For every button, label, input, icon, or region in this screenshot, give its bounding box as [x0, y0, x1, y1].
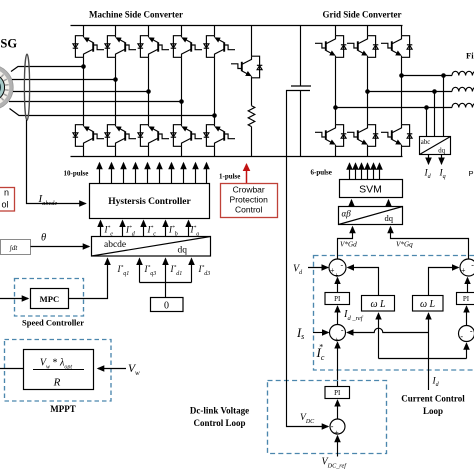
svg-text:0: 0	[164, 301, 169, 312]
svg-text:PI: PI	[334, 389, 341, 397]
wire alpha arm to SVM	[351, 200, 353, 206]
box excitation control (clipped)	[0, 188, 15, 212]
wire Vdc_ref input	[337, 436, 339, 457]
wire capacitor bottom	[300, 91, 302, 157]
box MPC speed controller dashed	[15, 279, 84, 317]
node tap b junction	[432, 89, 437, 94]
wire zero distribution	[140, 282, 192, 284]
wire omega-L d output to Vd summer	[348, 268, 379, 296]
node phase2-leg2	[113, 77, 118, 82]
wire machine leg5 vertical	[214, 26, 216, 157]
wire Vd input	[308, 267, 328, 269]
wire Iq_ref to PI q	[466, 306, 468, 325]
inductor filter L1	[452, 71, 474, 75]
wire Vw input	[98, 368, 126, 370]
svg-text:1-pulse: 1-pulse	[219, 172, 240, 180]
wire Id input vertical	[428, 313, 430, 390]
node phase5-leg5	[212, 113, 217, 118]
svg-text:Control: Control	[235, 204, 263, 214]
transistor IGBT machine lower leg2	[105, 125, 136, 147]
summer Iq junction	[459, 326, 474, 342]
box DC-link Voltage Control Loop dashed	[268, 381, 387, 454]
svg-text:ISG: ISG	[0, 37, 17, 51]
wire Vdc measurement from DC-link capacitor	[287, 91, 329, 427]
resistor crowbar R	[248, 106, 255, 127]
wire tap Ia to abc-dq	[443, 76, 445, 137]
wire tap Ib to abc-dq	[434, 92, 436, 137]
wire PI d to summer	[337, 278, 339, 293]
svg-text:αβ: αβ	[342, 208, 352, 218]
wire crowbar gate red arrow	[246, 165, 248, 184]
block Hysteresis Controller	[90, 184, 210, 219]
block abcde-dq transform	[92, 237, 211, 257]
svg-text:abc: abc	[421, 139, 430, 146]
svg-text:+: +	[334, 335, 339, 344]
svg-text:dq: dq	[178, 246, 188, 256]
block omega-L d-axis	[362, 296, 395, 312]
wire grid phase a output	[336, 107, 453, 109]
machine stator ellipse	[24, 54, 29, 120]
wire crowbar top	[251, 26, 253, 57]
svg-text:MPC: MPC	[40, 294, 60, 304]
svg-text:PI: PI	[334, 295, 341, 303]
wire current reference arrows into hysteresis	[101, 221, 189, 237]
wire Iq3* zero input	[139, 259, 141, 283]
wire crowbar bottom	[251, 127, 253, 157]
box integrator dt	[1, 240, 31, 255]
svg-text:Filter: Filter	[466, 51, 474, 61]
wire V*Gq into transform	[391, 227, 469, 259]
svg-text:n: n	[4, 188, 9, 198]
wire machine leg4 vertical	[181, 26, 183, 157]
wire machine phase 1	[11, 67, 84, 72]
block PI d-axis	[325, 293, 350, 305]
svg-text:V*Gq: V*Gq	[396, 241, 413, 249]
svg-text:-: -	[341, 261, 344, 270]
inductor filter L2	[452, 87, 474, 91]
node grid phase c junction	[333, 105, 338, 110]
wire machine leg1 vertical	[83, 26, 85, 157]
wire tap Ic to abc-dq	[426, 108, 428, 137]
wire cross feed horizontal	[379, 358, 467, 360]
transistor IGBT grid lower leg2	[347, 125, 378, 147]
svg-text:Crowbar: Crowbar	[233, 185, 265, 195]
transistor IGBT grid upper leg1	[315, 36, 346, 58]
svg-text:-: -	[460, 332, 463, 341]
wire Id_ref to PI d	[337, 306, 339, 324]
summer Is junction	[330, 325, 346, 341]
wire Id feedback with hop into Is summer	[347, 328, 428, 332]
transistor IGBT machine lower leg5	[204, 125, 235, 147]
transistor IGBT machine lower leg1	[73, 125, 104, 147]
machine ISG generator	[0, 65, 13, 110]
transistor IGBT grid upper leg2	[347, 36, 378, 58]
wire beta arm to SVM	[388, 200, 390, 206]
inductor filter L3	[452, 103, 474, 107]
svg-text:6-pulse: 6-pulse	[311, 169, 332, 177]
summer Vdc junction	[330, 419, 345, 434]
node grid phase b junction	[365, 89, 370, 94]
wire Id1* zero input	[165, 259, 167, 298]
svg-text:R: R	[53, 377, 61, 389]
block alphabeta-dq transform	[339, 207, 403, 225]
svg-text:dq: dq	[438, 147, 445, 154]
node tap a junction	[441, 73, 446, 78]
wire Ic* from DC-link loop	[337, 342, 339, 386]
svg-text:θ: θ	[41, 233, 46, 244]
box Crowbar Protection Control	[221, 184, 278, 218]
svg-text:Current Control: Current Control	[401, 393, 465, 403]
node tap c junction	[424, 105, 429, 110]
svg-text:Protection: Protection	[230, 195, 269, 205]
svg-text:Hystersis Controller: Hystersis Controller	[108, 197, 191, 207]
wire Id measurement arrow	[428, 155, 430, 164]
wire grid leg3 vertical	[401, 26, 403, 157]
block abc-dq measurement transform	[420, 137, 451, 155]
svg-text:abcde: abcde	[104, 240, 126, 250]
svg-text:-: -	[341, 325, 344, 334]
wire Iq measurement arrow	[441, 155, 443, 164]
svg-text:SVM: SVM	[359, 183, 382, 195]
transistor IGBT grid lower leg3	[381, 125, 412, 147]
transistor IGBT machine lower leg4	[171, 125, 202, 147]
svg-text:ω L: ω L	[370, 299, 386, 310]
summer Vd junction	[329, 259, 346, 276]
transistor IGBT machine upper leg5	[204, 36, 235, 58]
capacitor DC-link top wire	[300, 26, 302, 87]
block PI q-axis	[457, 293, 474, 305]
wire PI q to Vq summer	[467, 278, 469, 293]
block PI dc	[325, 387, 350, 399]
wire into Iq summer	[466, 344, 468, 359]
box MPPT dashed	[5, 340, 112, 402]
block omega-L q-axis	[413, 296, 444, 312]
svg-text:Machine Side Converter: Machine Side Converter	[89, 10, 183, 20]
svg-text:Dc-link Voltage: Dc-link Voltage	[190, 405, 249, 415]
wire crowbar middle	[251, 78, 253, 106]
wire Vdc error to PI dc	[337, 400, 339, 419]
node phase1-leg1	[81, 64, 86, 69]
block MPPT gain	[24, 350, 94, 390]
svg-text:Loop: Loop	[423, 406, 443, 416]
svg-text:MPPT: MPPT	[50, 404, 76, 414]
summer Vq junction	[460, 259, 474, 276]
transistor IGBT grid upper leg3	[381, 36, 412, 58]
wire grid phase c output	[402, 75, 453, 77]
svg-text:-: -	[470, 326, 473, 335]
wire Iq1* from MPC	[69, 259, 108, 299]
wire grid leg2 vertical	[367, 26, 369, 157]
wire 6-pulse gate arrows	[350, 164, 380, 180]
wire machine phase 4	[9, 101, 182, 103]
node grid phase a junction	[399, 73, 404, 78]
wire MPPT output	[0, 368, 24, 370]
wire theta to abcde-dq	[31, 246, 90, 248]
wire bottom DC bus	[71, 156, 403, 158]
wire omega-L d input	[378, 313, 380, 358]
transistor IGBT machine lower leg3	[138, 125, 169, 147]
node phase4-leg4	[179, 99, 184, 104]
capacitor DC-link plates	[291, 86, 311, 91]
svg-text:+: +	[461, 266, 466, 275]
block MPC	[31, 289, 69, 309]
node phase3-leg3	[146, 89, 151, 94]
wire machine phase 2	[12, 79, 116, 81]
svg-text:Speed Controller: Speed Controller	[22, 318, 84, 328]
svg-text:Control Loop: Control Loop	[193, 418, 245, 428]
wire Iabcde measurement into hysteresis	[27, 120, 86, 204]
block SVM	[340, 180, 403, 198]
wire omega-L q output to Vq summer	[429, 268, 459, 296]
svg-text:dq: dq	[385, 213, 394, 223]
transistor IGBT crowbar	[231, 56, 262, 78]
svg-text:ω L: ω L	[420, 299, 436, 310]
svg-text:10-pulse: 10-pulse	[64, 169, 89, 177]
transistor IGBT grid lower leg1	[315, 125, 346, 147]
wire machine phase 3	[13, 91, 149, 93]
block zero constant	[151, 298, 184, 312]
wire top DC bus	[71, 25, 403, 27]
svg-text:+: +	[334, 429, 339, 438]
wire machine phase 5	[10, 109, 215, 116]
wire Id3* zero input	[191, 259, 193, 283]
box Current Control Loop dashed	[314, 256, 474, 371]
svg-text:ol: ol	[1, 199, 8, 209]
transistor IGBT machine upper leg1	[73, 36, 104, 58]
svg-text:Grid Side Converter: Grid Side Converter	[323, 10, 402, 20]
svg-text:P: P	[469, 169, 474, 178]
svg-text:PI: PI	[463, 295, 470, 303]
wire V*Gd into transform	[338, 227, 353, 259]
wire 10-pulse gate arrows	[100, 163, 207, 184]
svg-text:∫dt: ∫dt	[9, 244, 18, 252]
wire machine leg3 vertical	[148, 26, 150, 157]
wire Is input	[313, 332, 328, 334]
svg-text:+: +	[334, 271, 339, 280]
wire grid leg1 vertical	[335, 26, 337, 157]
transistor IGBT machine upper leg4	[171, 36, 202, 58]
svg-text:V*Gd: V*Gd	[340, 241, 357, 249]
wire machine leg2 vertical	[115, 26, 117, 157]
transistor IGBT machine upper leg2	[105, 36, 136, 58]
transistor IGBT machine upper leg3	[138, 36, 169, 58]
wire grid phase b output	[368, 91, 453, 93]
wire speed reference into MPC	[0, 298, 28, 300]
